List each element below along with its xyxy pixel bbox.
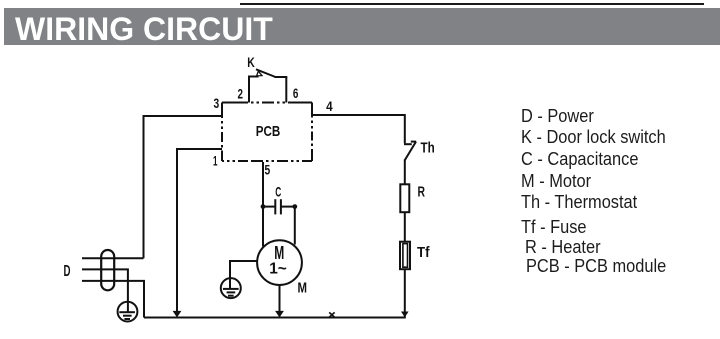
wire plug line (top prong) [82, 257, 144, 259]
svg-text:4: 4 [326, 99, 333, 114]
svg-text:Th: Th [421, 140, 435, 156]
wire plug neutral (bottom prong) [82, 281, 144, 318]
wire pin3 to left bus [144, 116, 223, 258]
legend Tf - Fuse [521, 217, 587, 238]
legend PCB - PCB module [526, 256, 666, 277]
svg-text:C: C [275, 183, 281, 199]
legend D - Power [521, 106, 594, 127]
legend R - Heater [525, 237, 601, 258]
heater R [400, 184, 409, 212]
legend C - Capacitance [521, 149, 638, 170]
svg-text:5: 5 [265, 162, 271, 177]
svg-text:3: 3 [214, 96, 220, 111]
junction arrow Tf/rail [401, 312, 409, 318]
wire R to Tf [404, 212, 406, 242]
motor M [257, 240, 302, 285]
svg-text:K: K [247, 54, 255, 70]
junction dot capacitor right [292, 204, 297, 209]
PCB module box [222, 103, 312, 162]
legend M - Motor [521, 171, 591, 192]
wire Th to R [404, 160, 406, 185]
legend Th - Thermostat [521, 192, 637, 213]
ground rail wire [144, 317, 406, 319]
protective earth (plug) [118, 302, 138, 322]
junction arrow pin1/rail [173, 311, 182, 318]
capacitor C [263, 199, 295, 214]
thermostat Th [404, 142, 416, 161]
door lock switch K [248, 69, 287, 102]
wire capacitor to motor [294, 207, 296, 245]
protective earth (motor) [221, 278, 241, 298]
wire pin1 down to ground rail [177, 149, 222, 316]
svg-text:M: M [297, 279, 307, 296]
junction arrow motor/rail [275, 311, 284, 318]
junction x mark [329, 312, 334, 317]
svg-text:R: R [418, 185, 426, 201]
legend K - Door lock switch [521, 127, 666, 148]
svg-text:PCB: PCB [256, 123, 281, 140]
fuse Tf [400, 242, 410, 270]
wire pin4 to thermostat [312, 115, 405, 143]
wire motor to earth [230, 261, 257, 278]
svg-text:2: 2 [237, 86, 243, 101]
wire Tf to rail [404, 269, 406, 316]
power plug D [101, 250, 114, 290]
wire plug earth (middle prong) [82, 269, 128, 301]
svg-text:1~: 1~ [269, 260, 287, 277]
svg-text:1: 1 [213, 154, 218, 169]
junction dot capacitor left [261, 204, 266, 209]
wire pin5 down to motor [262, 162, 264, 247]
svg-text:6: 6 [293, 86, 299, 101]
wire motor to rail [279, 285, 281, 316]
svg-text:D: D [64, 263, 71, 280]
svg-text:Tf: Tf [417, 245, 430, 261]
